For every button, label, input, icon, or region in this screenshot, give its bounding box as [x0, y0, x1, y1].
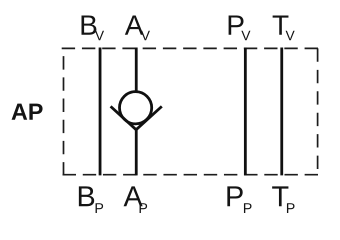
sandwich plate dashed outline: left edge [63, 48, 65, 175]
wire: port line A upper (Av to check valve) [135, 48, 138, 92]
label Ap main [124, 186, 143, 206]
module designation AP [12, 104, 43, 120]
label Pp main [227, 186, 242, 206]
label Pp subscript [244, 203, 252, 213]
label Tp main [272, 186, 288, 206]
wire: port line A lower (check valve to Ap) [135, 128, 138, 176]
label Bv subscript [95, 31, 104, 40]
label Av main [125, 15, 144, 34]
check valve V1: valve seat [111, 106, 162, 129]
label Tv subscript [286, 31, 295, 40]
sandwich plate dashed outline: top edge [62, 47, 318, 49]
check valve V1: poppet ball [120, 92, 152, 124]
label Tp subscript [287, 203, 295, 213]
label Tv main [273, 15, 289, 34]
label Pv main [229, 15, 244, 34]
label Av subscript [141, 31, 150, 40]
wire: port line P (Pv to Pp) [244, 48, 247, 176]
label Bv main [82, 15, 97, 34]
label Pv subscript [241, 31, 250, 40]
label Bp subscript [96, 203, 104, 213]
label Bp main [79, 186, 94, 206]
label Ap subscript [140, 203, 148, 213]
wire: port line T (Tv to Tp) [280, 48, 283, 176]
wire: port line B (Bv to Bp) [99, 48, 102, 176]
sandwich plate dashed outline: bottom edge [63, 174, 318, 176]
sandwich plate dashed outline: right edge [317, 48, 319, 172]
